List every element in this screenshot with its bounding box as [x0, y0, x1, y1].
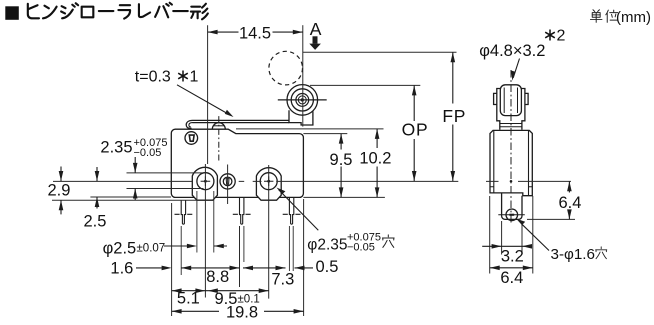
keyhole inner slot [189, 135, 194, 141]
ext line 14.5 left [207, 25, 209, 164]
arrowhead 10.2 down [375, 187, 380, 197]
row B shafts [136, 267, 313, 269]
svg-text:5.1: 5.1 [177, 290, 200, 308]
glyph n [43, 6, 57, 19]
svg-text:3.2: 3.2 [501, 247, 524, 265]
tab hole circle [506, 209, 518, 221]
leader 3-phi1.6 hole [522, 224, 550, 251]
arrowhead FP up [451, 52, 456, 62]
middle small circle outer [220, 174, 235, 189]
ext line body bottom right [303, 196, 385, 198]
svg-text:14.5: 14.5 [239, 24, 271, 42]
left hole center dot [204, 180, 207, 183]
glyph ra [118, 5, 130, 18]
right view hole center h-line [486, 180, 571, 182]
svg-text:8.8: 8.8 [206, 268, 229, 286]
right view ext tab-right [521, 221, 523, 255]
svg-text:t=0.3: t=0.3 [135, 68, 171, 85]
body bottom step ticks [490, 186, 532, 188]
ext vert body-left [171, 203, 173, 316]
ext line 9.5 top [303, 133, 347, 135]
arrowhead phi2.35 leader [277, 188, 286, 195]
ext vert pin3-left [288, 226, 290, 271]
svg-text:1.6: 1.6 [110, 259, 133, 277]
svg-text:FP: FP [442, 106, 466, 126]
svg-text:φ4.8×3.2: φ4.8×3.2 [479, 42, 545, 60]
svg-text:6.4: 6.4 [559, 194, 582, 212]
terminal pin 2 [240, 197, 244, 224]
dim 2.9 arrow shafts [60, 167, 62, 215]
leader t=0.3 [177, 85, 226, 113]
arrowhead 2.35 down [133, 163, 138, 173]
glyph ro [82, 7, 94, 18]
arrowhead 10.2 up [375, 129, 380, 139]
ext vert pin2-left [239, 226, 241, 287]
svg-text:−0.05: −0.05 [134, 147, 162, 159]
roller horizontal centerline [278, 99, 327, 101]
glyph bar1 [99, 10, 114, 12]
arrowhead 9.5pm right [259, 288, 269, 293]
arrowhead 2.9 down [59, 171, 64, 181]
arrowhead 5.1 right [195, 288, 205, 293]
row D shafts [172, 310, 304, 312]
arrowhead A pointer [313, 36, 318, 43]
dim line FP [452, 52, 454, 181]
fork neck upper line [500, 123, 522, 125]
dim line 14.5 [208, 31, 303, 33]
fork left ear [494, 93, 497, 104]
glyph hi [28, 4, 39, 19]
title text (hand-drawn katakana+kanji strokes) [28, 3, 208, 19]
right view ext tab-left [501, 221, 503, 255]
ext vert body-right [303, 199, 305, 316]
dim phi2.5 leader and shafts [164, 245, 227, 247]
white mask over bump inside lever band [205, 120, 235, 123]
dim 6.4 right shafts [568, 181, 570, 219]
center reference cross dot [510, 180, 513, 183]
svg-text:7.3: 7.3 [271, 270, 294, 288]
keyhole circle top-left [185, 132, 198, 145]
left mounting boss [192, 167, 217, 200]
dim 2.5 arrow shafts [96, 167, 98, 209]
ext vert pin3-right [292, 226, 294, 271]
glyph re [139, 4, 150, 17]
leader phi2.35 hole [279, 190, 319, 231]
hinge bump arc [212, 123, 225, 130]
arrowhead phi2.5 left [214, 244, 224, 249]
svg-text:6.4: 6.4 [500, 269, 523, 287]
OP top reference line [310, 84, 420, 86]
svg-text:±0.07: ±0.07 [137, 242, 166, 254]
middle circle slot [226, 179, 229, 185]
ext line body bottom left [90, 196, 171, 198]
dim 2.35 arrows shafts [134, 157, 136, 200]
svg-text:2.9: 2.9 [48, 181, 71, 199]
dim 3.2 line [482, 245, 532, 247]
right mounting hole circle [260, 173, 277, 190]
arrowhead 5.1 left [172, 288, 182, 293]
svg-text:2: 2 [557, 28, 566, 45]
svg-text:OP: OP [402, 120, 429, 140]
arrowhead 3.2 right [492, 244, 502, 249]
tab top line [127, 172, 204, 174]
arrowhead 9.5 up [339, 134, 344, 144]
arrowhead 6.4b left [490, 266, 500, 271]
ext vert hole dia right stub [213, 191, 215, 253]
fork right ear [525, 93, 528, 104]
ext vert right hole center [268, 165, 270, 299]
body inner left line [493, 130, 495, 193]
arrowhead 8.8 right [230, 266, 240, 271]
leader phi4.8 roller [513, 59, 519, 78]
front view fork right plate [521, 89, 525, 130]
tab bottom line [127, 188, 204, 190]
FP top reference line [303, 51, 457, 53]
arrowhead 2.35 up [133, 189, 138, 199]
arrowhead OP down [412, 171, 417, 181]
body inner right line [528, 130, 530, 195]
arrowhead 6.4b right [523, 266, 533, 271]
glyph tan [590, 10, 602, 23]
svg-text:φ2.35: φ2.35 [307, 236, 347, 253]
mounting tab [502, 193, 522, 220]
right hole center cross ticks [264, 176, 273, 186]
svg-text:0.5: 0.5 [316, 258, 339, 276]
glyph bar2 [173, 10, 188, 12]
hinge pivot dash-dot centerline [218, 116, 220, 162]
dim line 9.5 vertical [340, 134, 342, 198]
glyph ji [61, 3, 78, 18]
kanji hole (3-phi1.6) [596, 247, 607, 259]
tab hole center cross [498, 214, 525, 216]
arrowhead 14.5 right [293, 30, 303, 35]
ext vert hole dia left stub [196, 191, 198, 253]
ext line 14.5 right through roller [302, 25, 304, 126]
middle small circle inner [223, 177, 232, 186]
arrowhead 1.6 right [162, 266, 172, 271]
row C shaft [172, 290, 269, 292]
roller outer circle [287, 85, 318, 116]
arrowhead FP down [451, 171, 456, 181]
switch body outline [171, 129, 303, 197]
ext line boss bottom left [52, 199, 197, 201]
svg-text:(mm): (mm) [616, 9, 651, 26]
arrowhead 6.4 right up [567, 181, 572, 191]
arrowhead 7.3 left [243, 266, 253, 271]
right hole center dot [267, 180, 270, 183]
free-position dashed circle [269, 51, 303, 85]
lever top edge [193, 119, 289, 121]
terminal pin 1 [181, 200, 185, 224]
kanji hole (phi2.35) [382, 235, 394, 247]
arrowhead 0.5 left [295, 266, 305, 271]
svg-text:10.2: 10.2 [359, 149, 391, 167]
svg-text:φ2.5: φ2.5 [103, 239, 137, 257]
front view fork left plate [497, 89, 501, 130]
lever left hook end [186, 120, 192, 128]
arrowhead 19.8 right [294, 309, 304, 314]
arrowhead 9.5pm left [208, 288, 218, 293]
ext line 10.2 top [236, 128, 384, 130]
svg-text:9.5: 9.5 [330, 151, 353, 169]
left hole center cross ticks [201, 176, 211, 186]
svg-text:A: A [310, 19, 322, 39]
left mounting hole circle [197, 173, 214, 190]
arrowhead phi4.8 leader [511, 71, 515, 81]
hole centerline horizontal [53, 180, 458, 182]
arrowhead 2.5 up [95, 197, 100, 207]
arrowhead 19.8 left [172, 309, 182, 314]
dim line OP [413, 85, 415, 181]
hinge pivot cross tick [214, 125, 225, 127]
right view tab bottom ext [527, 218, 575, 220]
right view ext body-right [532, 196, 534, 274]
front view roller [500, 85, 521, 116]
svg-text:2.35: 2.35 [100, 139, 132, 157]
right view ext body-left [489, 196, 491, 274]
roller ring circle [291, 89, 313, 111]
svg-text:1: 1 [190, 68, 199, 85]
fork bottom line [500, 126, 522, 128]
pin3 board-level dashes [283, 213, 301, 215]
lever hook inner curl [189, 123, 193, 127]
glyph katachi [191, 4, 208, 20]
dim 6.4 bottom line [490, 267, 533, 269]
svg-text:−0.05: −0.05 [347, 241, 375, 253]
roller hub inner [298, 96, 306, 104]
dim line 10.2 vertical [376, 129, 378, 198]
vertical dash-dot centerline [510, 70, 512, 224]
roller hub outer [296, 94, 309, 107]
svg-text:2.5: 2.5 [84, 212, 107, 230]
ext vert pin1-left [180, 226, 182, 275]
glyph ba [155, 3, 172, 18]
roller inner side lines [504, 88, 517, 114]
arrowhead 2.9 up [59, 200, 64, 210]
arrowhead 14.5 left [208, 30, 218, 35]
front view body [490, 130, 532, 195]
svg-text:3-φ1.6: 3-φ1.6 [551, 246, 595, 263]
arrowhead 7.3 right [276, 266, 286, 271]
label *2 [545, 30, 555, 41]
ext vert mid circle center [227, 165, 229, 205]
arrowhead 9.5 down [339, 187, 344, 197]
terminal pin 3 [289, 197, 293, 224]
arrowhead 3-phi1.6 leader [516, 219, 525, 226]
svg-text:19.8: 19.8 [226, 304, 258, 322]
arrowhead 3.2 left [522, 244, 532, 249]
ext vert left hole center [204, 164, 206, 298]
title square bullet [5, 6, 18, 19]
arrowhead 8.8 left [181, 266, 191, 271]
pin1 board-level dashes [175, 213, 193, 215]
tab hole center dot [509, 214, 514, 216]
arrowhead 6.4 right down [567, 209, 572, 219]
unit label 単位(mm) [590, 10, 617, 23]
right mounting boss [256, 168, 281, 201]
pin2 board-level dashes [233, 213, 251, 215]
glyph i [606, 10, 618, 22]
roller center dot [301, 98, 304, 101]
roller bracket [289, 110, 313, 125]
arrowhead 2.5 down [95, 171, 100, 181]
arrowhead t=0.3 leader [225, 110, 234, 117]
lever bottom edge [193, 122, 289, 124]
ext vert pin2-right [243, 226, 245, 262]
arrowhead phi2.5 right [187, 244, 197, 249]
arrowhead OP up [412, 85, 417, 95]
